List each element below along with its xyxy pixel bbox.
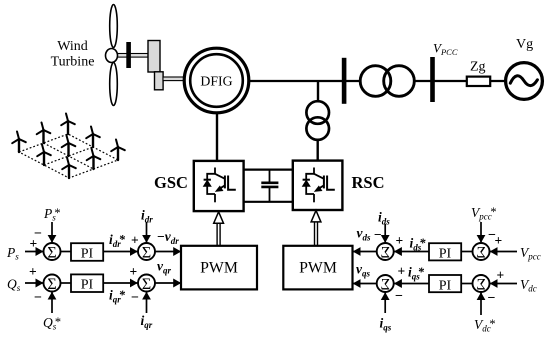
- wire S4 to PWM arrow: [155, 282, 182, 284]
- wire ids down arrow: [384, 224, 386, 243]
- label Wind Turbine: [51, 39, 95, 70]
- svg-text:Σ: Σ: [142, 276, 151, 293]
- wire Ps* down arrow: [51, 222, 53, 243]
- gate drive arrow PWM to GSC: [214, 212, 224, 246]
- transformer T1: [360, 66, 414, 97]
- wire S7 to PI: [461, 283, 473, 285]
- wind farm turbine 3: [61, 114, 75, 135]
- summing junction S4: [138, 275, 155, 293]
- wire DC link bottom: [244, 201, 293, 203]
- svg-text:PI: PI: [81, 278, 94, 293]
- wire S8 to PWM arrow: [353, 283, 378, 285]
- wire DC link top: [244, 169, 293, 171]
- PI controller (Vdc loop): [429, 275, 461, 294]
- PI controller (P loop): [71, 243, 103, 261]
- wire PI to S4 arrow: [103, 282, 138, 284]
- wire Vdc input arrow: [490, 283, 517, 285]
- wind farm turbine 9: [111, 140, 125, 161]
- wire S1 to PI: [60, 251, 71, 253]
- PWM block (GSC): [181, 246, 257, 290]
- wire Qs* up arrow: [51, 292, 53, 313]
- wire Vdc* up arrow: [480, 292, 482, 315]
- svg-text:Turbine: Turbine: [51, 55, 95, 70]
- wind farm turbine 2: [37, 123, 51, 144]
- bus bar 2 (PCC): [430, 57, 435, 102]
- wire S2 to PWM arrow: [155, 251, 182, 253]
- wire Vpcc* down arrow: [480, 222, 482, 243]
- wire Ps input arrow: [25, 251, 44, 253]
- svg-text:Σ: Σ: [381, 244, 390, 261]
- svg-text:+: +: [497, 268, 505, 283]
- high-speed shaft: [163, 77, 185, 81]
- wire iqr up arrow: [146, 292, 148, 313]
- wire DFIG stator down to GSC: [216, 113, 218, 161]
- converter GSC box: [194, 161, 244, 211]
- wind farm turbine 6: [86, 127, 100, 148]
- wire Qs input arrow: [25, 282, 44, 284]
- wire S3 to PI: [60, 282, 71, 284]
- summing junction S8: [377, 275, 394, 293]
- svg-text:−: −: [488, 228, 496, 243]
- wind farm turbine 8: [87, 149, 101, 170]
- capacitor DC link: [261, 170, 278, 202]
- grid impedance Zg: [467, 77, 490, 86]
- wire idr down arrow: [146, 222, 148, 243]
- summing junction S3: [44, 275, 61, 293]
- wind turbine blade (bottom): [110, 63, 118, 106]
- svg-text:−: −: [34, 291, 42, 306]
- wind farm turbine 5: [62, 136, 76, 157]
- wind farm turbine 7: [62, 158, 76, 179]
- svg-text:RSC: RSC: [352, 173, 385, 192]
- wire PI to S8 arrow: [394, 283, 429, 285]
- svg-text:Vg: Vg: [516, 37, 533, 52]
- summing junction S2: [138, 243, 155, 261]
- wire S6 to PWM arrow: [353, 251, 378, 253]
- svg-text:Zg: Zg: [470, 60, 486, 75]
- wire transformer T2 to RSC: [317, 140, 319, 161]
- svg-text:Σ: Σ: [47, 244, 56, 261]
- summing junction S6: [377, 243, 394, 261]
- gearbox block 1: [148, 41, 160, 73]
- svg-text:Σ: Σ: [476, 276, 485, 293]
- summing junction S5: [473, 243, 490, 261]
- IGBT in RSC: [303, 168, 335, 203]
- wire stator bus (DFIG to grid): [249, 80, 506, 82]
- svg-text:+: +: [29, 264, 37, 279]
- svg-text:+: +: [396, 233, 404, 248]
- grid source Vg: [506, 63, 543, 100]
- svg-text:GSC: GSC: [154, 173, 188, 192]
- wind farm turbine 4: [37, 145, 51, 166]
- svg-text:−: −: [131, 291, 139, 306]
- wind farm dashed grid: [19, 134, 118, 178]
- gate drive arrow PWM to RSC: [311, 210, 321, 245]
- svg-text:−: −: [395, 289, 403, 304]
- svg-text:DFIG: DFIG: [200, 73, 232, 88]
- wire PI to S2 arrow: [103, 251, 138, 253]
- svg-text:PWM: PWM: [200, 259, 238, 276]
- wind farm turbine 1: [12, 132, 26, 153]
- svg-text:−: −: [34, 227, 42, 242]
- gearbox block 2: [155, 72, 164, 90]
- PWM block (RSC): [283, 246, 352, 290]
- svg-text:Σ: Σ: [47, 276, 56, 293]
- wind turbine blade (top): [110, 5, 118, 48]
- wire S5 to PI: [461, 251, 473, 253]
- wire iqs up arrow: [384, 292, 386, 313]
- bus bar 1: [342, 58, 347, 104]
- generator DFIG inner circle: [190, 54, 243, 107]
- summing junction S1: [44, 243, 61, 261]
- PI controller (Q loop): [71, 274, 103, 292]
- svg-text:+: +: [398, 264, 406, 279]
- svg-text:PI: PI: [81, 247, 94, 262]
- svg-text:Σ: Σ: [142, 244, 151, 261]
- brake disc: [126, 42, 131, 68]
- transformer T2 (rotor side): [306, 101, 329, 140]
- svg-text:PWM: PWM: [299, 259, 337, 276]
- hub: [106, 49, 118, 63]
- wire branch down to rotor-side transformer: [317, 81, 319, 102]
- svg-text:+: +: [130, 264, 138, 279]
- svg-text:Wind: Wind: [57, 39, 88, 54]
- svg-text:PI: PI: [439, 247, 452, 262]
- summing junction S7: [473, 275, 490, 293]
- wire PI to S6 arrow: [394, 251, 429, 253]
- IGBT in GSC: [204, 168, 236, 203]
- wire Vpcc input arrow: [490, 251, 517, 253]
- low-speed shaft: [115, 54, 148, 58]
- svg-text:PI: PI: [439, 279, 452, 294]
- converter RSC box: [293, 161, 343, 210]
- svg-text:+: +: [131, 233, 139, 248]
- svg-text:Σ: Σ: [381, 276, 390, 293]
- svg-text:Σ: Σ: [476, 244, 485, 261]
- generator DFIG outer circle: [184, 48, 249, 113]
- svg-text:−: −: [488, 291, 496, 306]
- PI controller (Vpcc loop): [429, 243, 461, 261]
